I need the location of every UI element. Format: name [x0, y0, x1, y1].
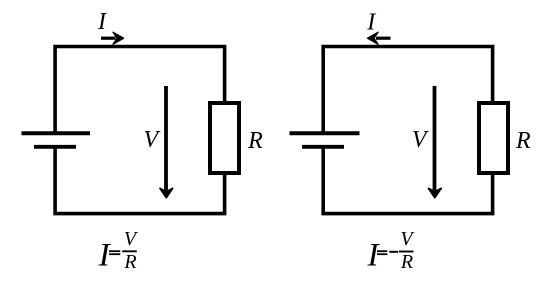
svg-text:I: I	[366, 9, 376, 35]
battery B2 (right cell): short negative plate	[302, 145, 344, 149]
svg-text:V: V	[143, 127, 160, 153]
current arrow I (right circuit): stealth arrowhead	[367, 32, 378, 44]
formula I=V/R (left): fraction bar	[122, 250, 137, 252]
svg-text:I: I	[98, 238, 112, 274]
battery B1 (left cell): long positive plate	[22, 131, 91, 135]
resistor R (left): box body	[210, 103, 239, 173]
formula I=V/R (left): equals sign bottom bar	[109, 253, 120, 255]
svg-text:V: V	[412, 127, 429, 153]
formula I=-V/R (right): fraction bar	[399, 251, 414, 253]
wire: left circuit, lower loop (left wire bottom half, bottom wire, right wire from resistor)	[55, 147, 225, 214]
formula I=-V/R (right): equals sign top bar	[377, 250, 387, 252]
formula I=-V/R (right): minus sign	[389, 251, 398, 253]
svg-text:R: R	[400, 251, 413, 273]
formula I=-V/R (right): equals sign bottom bar	[377, 253, 387, 255]
wire: right circuit, lower loop (left wire bottom half, bottom wire, right wire from resistor)	[323, 147, 492, 214]
svg-text:I: I	[367, 238, 381, 274]
svg-text:R: R	[123, 251, 136, 273]
voltage arrow V (left circuit): shaft	[164, 86, 168, 191]
battery B1 (left cell): short negative plate	[34, 145, 76, 149]
svg-text:R: R	[515, 128, 531, 154]
current arrow I (left circuit, pointing right): shaft	[101, 37, 116, 40]
current arrow I (left circuit): stealth arrowhead	[113, 32, 124, 44]
formula I=V/R (left): equals sign top bar	[109, 250, 120, 252]
current arrow I (right circuit, pointing left): shaft	[376, 37, 391, 40]
voltage arrow V (right circuit): arrowhead	[429, 188, 442, 197]
svg-text:R: R	[247, 128, 263, 154]
voltage arrow V (right circuit): shaft	[433, 86, 437, 191]
voltage arrow V (left circuit): arrowhead	[160, 188, 173, 197]
svg-text:I: I	[97, 9, 107, 35]
wire: left circuit, upper loop (left wire top half, top wire, right wire to resistor)	[55, 47, 225, 134]
battery B2 (right cell): long positive plate	[290, 131, 360, 135]
resistor R (right): box body	[479, 103, 508, 173]
wire: right circuit, upper loop (left wire top half, top wire, right wire to resistor)	[323, 47, 492, 134]
